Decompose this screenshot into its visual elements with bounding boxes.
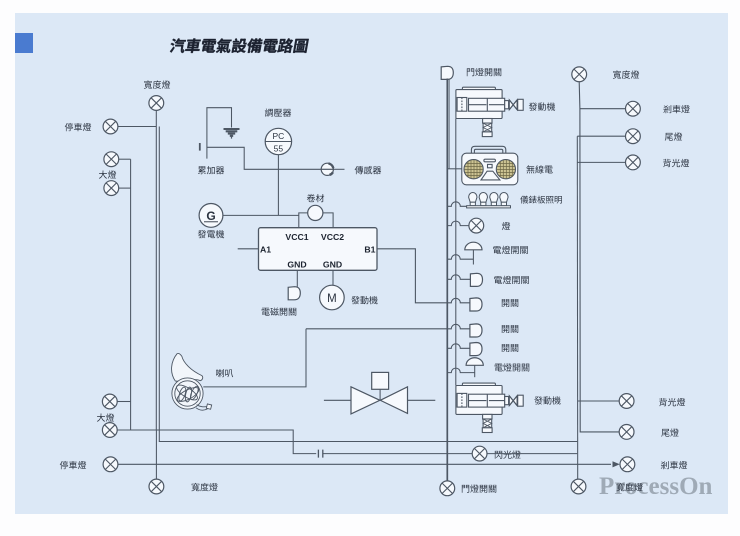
svg-text:GND: GND [287, 260, 306, 270]
wire 停車燈-bottom long row [118, 463, 611, 465]
IC block U1 [259, 228, 378, 271]
label 剎車燈 bottom [661, 461, 687, 469]
sensor 傳感器 [321, 163, 333, 175]
wire row430 大燈 to capacitor branch [117, 430, 316, 454]
lamp 大燈 top-2 [104, 181, 119, 196]
label datou-bottom [97, 413, 114, 421]
lamp 剎車燈 top-right [626, 101, 641, 116]
label 開關 2 [502, 299, 518, 307]
label 背光燈 top [663, 159, 689, 167]
door lamp switch 門燈開關 top [441, 66, 453, 79]
wire valve left stub [324, 399, 351, 401]
label kuandu-top-left [144, 80, 170, 88]
wire bus A to dome1 [447, 255, 473, 260]
label 寬度燈 bottom-right [616, 483, 642, 491]
wire IC pin to motor M [332, 270, 334, 285]
lamp 門燈開關 bottom [440, 481, 455, 496]
wire coil bracket [299, 213, 308, 228]
wire 停車燈-top to C1 [118, 126, 156, 128]
wire valve right stub [408, 399, 436, 401]
arrow into 剎車燈 bottom [613, 461, 620, 467]
wire R1 bus [576, 136, 578, 479]
label 發動機 M [351, 296, 377, 304]
wire 大燈2 stub [119, 187, 131, 189]
label 剎車燈 top [663, 105, 689, 113]
label kuandu-bottom-left [191, 483, 217, 491]
wire A1 stub [238, 248, 259, 250]
label 燈 [502, 222, 510, 230]
label 卷材 [307, 194, 324, 202]
lamp 寬度燈 bottom-left [149, 479, 164, 494]
wire bus A parallel stub [448, 79, 450, 169]
svg-text:M: M [327, 293, 337, 305]
regulator PC55 [265, 128, 291, 154]
wire bus A to dome2 [447, 368, 474, 373]
svg-text:VCC1: VCC1 [285, 232, 308, 242]
label tingche-bottom [60, 461, 86, 469]
wire C2 bus [159, 127, 577, 442]
lamp 剎車燈 bottom-right [620, 457, 635, 472]
label 儀錶板照明 [520, 196, 562, 204]
label 喇叭 [216, 369, 233, 377]
wire C1 bus [155, 110, 157, 430]
battery plate [199, 143, 201, 151]
label 發動機 top [529, 102, 555, 110]
label 無線電 [526, 165, 552, 173]
lamp 大燈 top-1 [104, 152, 119, 167]
wire bottom lamp stem [155, 430, 157, 479]
lamp 大燈 bottom-2 [102, 423, 117, 438]
wire bus B [455, 119, 457, 386]
wire horn to valve row [203, 329, 306, 387]
wire capacitor to flash lamp [323, 453, 472, 455]
label 電燈開關 dome2 [495, 363, 530, 371]
wire flash lamp to R1 [487, 453, 577, 455]
lamp L1 寬度燈 top-left [149, 96, 164, 111]
label 門燈開關 top [467, 68, 501, 76]
title [169, 38, 309, 53]
dashboard illumination 儀錶板照明 [467, 192, 511, 207]
wire bus A to dashboard [447, 202, 466, 207]
svg-text:VCC2: VCC2 [321, 232, 344, 242]
svg-text:A1: A1 [260, 245, 271, 255]
wire battery to sensor row [207, 147, 321, 169]
label 電磁開關 [262, 307, 297, 315]
electromagnetic switch 電磁開關 [288, 287, 300, 300]
wire 大燈 bottom-1 stub [117, 401, 130, 403]
starter motor 發動機 top [456, 87, 523, 136]
svg-text:G: G [206, 209, 215, 223]
switch 開關 3 [470, 324, 482, 337]
lamp 尾燈 top-right [626, 129, 641, 144]
label 背光燈 bottom [659, 398, 685, 406]
wire dome2 stem [474, 365, 476, 377]
svg-text:PC: PC [272, 131, 284, 141]
lamp 停車燈 bottom-left [103, 457, 118, 472]
wire 尾燈 top branch [577, 135, 625, 137]
wire bus A to 開關4 [447, 344, 470, 348]
label 閃光燈 [495, 450, 521, 458]
wire sensor stub right [333, 168, 344, 170]
label 電燈開關 dome1 [493, 246, 528, 254]
wire valve stem [379, 389, 381, 400]
wire 剎車燈 top branch [580, 108, 626, 110]
lamp 閃光燈 [472, 446, 487, 461]
radio 無線電 [462, 146, 518, 185]
label 寬度燈 top-right [613, 70, 639, 78]
wire 大燈1 stub [119, 158, 131, 160]
wire G to coil bracket [223, 214, 299, 216]
wire bus A [446, 79, 448, 481]
horn 喇叭 [172, 353, 212, 410]
valve bowtie body [351, 387, 380, 414]
wire bus A to pent1 [447, 275, 470, 280]
label 開關 3 [502, 325, 518, 333]
starter motor 發動機 bottom [456, 383, 523, 432]
label 尾燈 top [665, 132, 682, 140]
label 傳感器 [355, 166, 381, 174]
label 電燈開關 pent1 [494, 276, 529, 284]
wire bus A to radio [447, 168, 462, 170]
coil circle [308, 205, 323, 220]
svg-text:GND: GND [323, 260, 342, 270]
wire IC pin to 電磁開關 [296, 270, 298, 286]
wire 大燈 vertical connector [130, 159, 132, 430]
label tingche-top [65, 123, 91, 131]
switch 開關 4 [470, 343, 482, 356]
motor M circle [320, 285, 345, 310]
wire battery top loop [207, 108, 232, 159]
blue accent square [15, 33, 33, 53]
wire B1 to switch 開關2 [377, 249, 470, 303]
valve square actuator [372, 372, 389, 389]
label datou-top [99, 170, 116, 178]
capacitor C1 plates [318, 450, 322, 458]
svg-text:ProcessOn: ProcessOn [599, 473, 713, 500]
label 調壓器 [265, 108, 291, 116]
svg-text:55: 55 [274, 144, 284, 154]
lamp switch 電燈開關 pent1 [470, 273, 482, 286]
label 尾燈 bottom [661, 428, 678, 436]
wire 背光燈 bottom branch [578, 400, 620, 402]
label 累加器 [198, 166, 224, 174]
label 開關 4 [502, 344, 518, 352]
lamp 燈 [469, 218, 484, 233]
wire valve row to 開關3 [306, 324, 470, 329]
lamp 寬度燈 bottom-right [571, 479, 586, 494]
wire bus A to lamp 燈 [447, 221, 469, 226]
lamp 停車燈 top-left [103, 119, 118, 134]
lamp 寬度燈 top-right [572, 67, 587, 82]
label 發電機 generator [198, 230, 224, 238]
ground symbol [224, 129, 240, 138]
dome switch 電燈開關 1 [465, 242, 482, 250]
lamp 背光燈 bottom-right [619, 394, 634, 409]
wire coil bracket right [323, 213, 333, 228]
lamp 尾燈 bottom-right [619, 425, 634, 440]
label 門燈開關 bottom [462, 484, 496, 492]
wire R2 bus [579, 82, 619, 432]
lamp 大燈 bottom-1 [102, 394, 117, 409]
wire 背光燈 top branch [577, 161, 625, 163]
wire dome1 stem [472, 250, 474, 265]
lamp 背光燈 top-right [626, 155, 641, 170]
generator G [199, 204, 223, 228]
switch 開關 2 [470, 298, 482, 311]
svg-text:B1: B1 [364, 245, 375, 255]
dome switch 電燈開關 2 [466, 358, 483, 366]
wire PC55 stem [277, 155, 279, 216]
label 發動機 bottom [534, 396, 560, 404]
